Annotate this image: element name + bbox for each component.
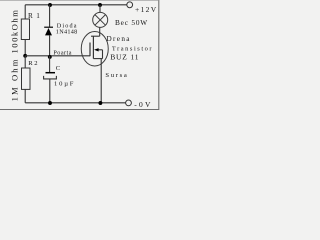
transistor gate bar (89, 43, 91, 57)
wire source to bottom rail (100, 59, 102, 103)
node junction R1/R2/gate (23, 54, 27, 58)
svg-text:1N4148: 1N4148 (56, 29, 78, 36)
svg-text:10µF: 10µF (54, 80, 75, 87)
transistor body-source link (102, 50, 104, 59)
node junction source/bottom rail (98, 101, 102, 105)
transistor Q1 BUZ11 body circle (81, 32, 108, 67)
svg-text:Sursa: Sursa (105, 72, 128, 79)
wire R1 bottom to junction (24, 40, 26, 56)
wire junction to R2 (24, 56, 26, 68)
capacitor C1 cup (44, 76, 57, 79)
transistor drain stub (91, 35, 100, 37)
svg-text:C: C (56, 65, 61, 72)
terminal +12V (127, 2, 133, 8)
svg-text:BUZ 11: BUZ 11 (110, 53, 139, 62)
svg-text:100kOhm: 100kOhm (9, 9, 19, 54)
wire R2 bottom to rail (24, 89, 26, 102)
terminal -0V (126, 100, 132, 106)
wire junction to capacitor (49, 56, 51, 72)
node junction diode-top (48, 3, 52, 7)
svg-text:Drena: Drena (107, 35, 131, 43)
wire gate net (25, 55, 90, 57)
border frame (0, 0, 159, 110)
svg-text:R 1: R 1 (28, 12, 41, 20)
wire bottom rail 0V (25, 102, 125, 104)
resistor R2 (22, 68, 31, 89)
diode D1 1N4148 cathode bar (44, 26, 53, 28)
svg-text:Transistor: Transistor (112, 46, 153, 53)
wire top rail +12V (25, 4, 127, 6)
svg-text:1M Ohm: 1M Ohm (9, 58, 19, 102)
wire diode branch top (49, 5, 51, 27)
wire lamp to transistor drain (99, 27, 101, 36)
node junction cap/bottom rail (48, 101, 52, 105)
transistor channel bar (92, 36, 94, 58)
svg-text:Bec 50W: Bec 50W (115, 18, 148, 27)
capacitor C1 top plate (46, 72, 56, 74)
svg-text:Poarta: Poarta (53, 50, 72, 57)
lamp Bec 50W (93, 12, 108, 27)
wire diode anode to gate net (49, 35, 51, 55)
svg-text:R 2: R 2 (28, 60, 37, 67)
transistor body arrow (98, 49, 102, 51)
diode D1 triangle (45, 28, 52, 35)
transistor source stub (93, 58, 102, 60)
node junction lamp-top (98, 3, 102, 7)
wire capacitor to bottom rail (49, 79, 51, 103)
wire lamp branch (99, 5, 101, 12)
resistor R1 (21, 19, 29, 40)
node junction diode/cap/gate (48, 55, 52, 59)
svg-text:+12V: +12V (135, 5, 158, 14)
wire left branch down to R1 (24, 5, 26, 19)
svg-text:-0V: -0V (134, 100, 152, 109)
